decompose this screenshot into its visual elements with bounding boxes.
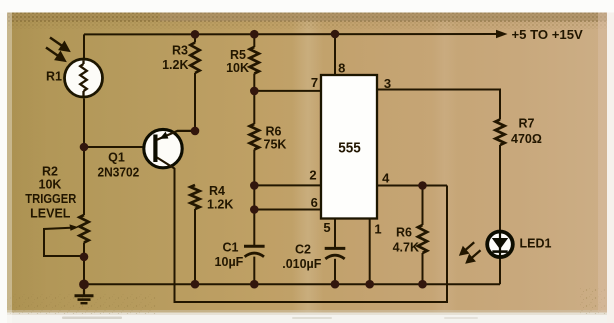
supply arrowhead +5 TO +15V — [496, 30, 508, 38]
IC U1 555 body — [321, 75, 377, 219]
junction node emitter / R3-R4 — [191, 127, 200, 136]
svg-text:470Ω: 470Ω — [511, 132, 542, 146]
capacitor C2 plates — [325, 248, 346, 259]
LED1 emitted light arrow 2 — [471, 250, 480, 258]
junction node pin 6 — [250, 205, 259, 214]
svg-text:+5 TO +15V: +5 TO +15V — [512, 27, 584, 42]
svg-text:LED1: LED1 — [520, 237, 552, 251]
junction node R6b / ground rail — [418, 280, 427, 289]
svg-text:R6: R6 — [266, 125, 282, 139]
wire pin 6 — [254, 209, 321, 211]
wire top rail +V — [84, 33, 498, 35]
svg-text:5: 5 — [323, 220, 330, 235]
light arrow 2 onto R1 — [46, 48, 59, 57]
svg-text:Q1: Q1 — [108, 151, 125, 165]
transistor Q1 body — [144, 129, 182, 167]
bottom-left speckle patch — [7, 294, 157, 314]
svg-text:.010µF: .010µF — [282, 257, 322, 271]
wire R6a bottom to pin2/pin6 node down to C1 — [253, 150, 255, 246]
bottom edge fade — [7, 310, 607, 315]
resistor R3 1.2K — [190, 43, 199, 74]
svg-text:10K: 10K — [226, 61, 249, 75]
transistor Q1 base bar — [153, 135, 157, 163]
svg-text:3: 3 — [384, 76, 391, 91]
LED1 emitted light arrow 1 — [461, 242, 481, 262]
junction node C2 / ground rail — [331, 280, 340, 289]
bottom-right speckle patch — [580, 288, 608, 314]
svg-text:R5: R5 — [230, 48, 246, 62]
svg-text:C2: C2 — [295, 243, 311, 257]
resistor R6 4.7K — [418, 225, 427, 253]
svg-text:4: 4 — [382, 170, 390, 185]
svg-text:R1: R1 — [46, 70, 62, 84]
wire Q1 collector loop to pin 4 — [175, 168, 448, 302]
wire C1 bottom to ground rail — [253, 257, 255, 285]
svg-text:555: 555 — [338, 139, 361, 156]
resistor R7 470 ohm — [495, 120, 504, 146]
wire pin 3 to R7 — [377, 90, 500, 120]
potentiometer R2 wiper arrowhead — [70, 224, 79, 230]
svg-text:R7: R7 — [519, 117, 535, 131]
light arrow 1 onto R1 — [46, 38, 69, 61]
LED1 body — [487, 232, 513, 258]
svg-text:2N3702: 2N3702 — [98, 166, 140, 180]
wire LED cathode to ground rail — [499, 259, 501, 285]
wire pin 8 — [334, 34, 336, 75]
wire pin 1 to ground rail — [369, 219, 371, 285]
junction node pot wiper return — [80, 252, 89, 261]
potentiometer R2 zigzag — [79, 215, 88, 243]
junction node R4 / ground rail — [191, 280, 200, 289]
svg-text:LEVEL: LEVEL — [30, 206, 71, 220]
transistor Q1 collector lead — [157, 158, 175, 169]
wire R5 branch — [253, 34, 255, 47]
svg-text:2: 2 — [309, 168, 316, 183]
svg-text:10µF: 10µF — [215, 255, 244, 269]
wire pin 2 — [254, 184, 321, 186]
svg-text:6: 6 — [311, 195, 318, 210]
junction node pin 7 / R5-R6 — [250, 87, 259, 96]
wire R1 bottom to base junction to pot — [83, 99, 85, 216]
svg-text:1: 1 — [374, 222, 381, 237]
svg-text:R4: R4 — [209, 184, 225, 198]
photoresistor R1 body — [65, 59, 103, 97]
svg-text:C1: C1 — [223, 241, 239, 255]
capacitor C1 plates — [244, 246, 265, 256]
junction node R1 / Q1 base — [80, 143, 89, 152]
resistor R4 1.2K — [190, 185, 199, 209]
svg-text:TRIGGER: TRIGGER — [25, 192, 76, 206]
wire R1 top drop — [83, 34, 85, 58]
wire pin 4 line — [377, 185, 447, 187]
junction node top rail / R5 — [250, 30, 259, 39]
junction node pin 4 / R6b — [418, 181, 427, 190]
LED1 triangle — [492, 238, 508, 249]
light vertical scan streak — [292, 13, 324, 313]
wire R3 branch (top rail through R3 to emitter node, through R4 to ground rail) — [194, 34, 196, 42]
photoresistor R1 internal zigzag — [80, 61, 87, 97]
junction node pin 1 / ground rail — [365, 280, 374, 289]
wire base of Q1 — [84, 146, 154, 148]
junction node C1 / ground rail — [250, 280, 259, 289]
junction node pin 2 — [250, 181, 259, 190]
transistor Q1 emitter lead (to node at R3/R4) — [157, 131, 195, 140]
junction node ground rail left end — [79, 280, 89, 290]
junction node top rail / R3 — [191, 30, 200, 39]
svg-text:4.7K: 4.7K — [393, 241, 419, 255]
wire pot bottom to ground — [83, 243, 85, 285]
svg-text:10K: 10K — [39, 178, 62, 192]
svg-text:R2: R2 — [42, 165, 58, 179]
transistor Q1 emitter arrowhead (PNP) — [160, 132, 169, 139]
svg-text:R6: R6 — [396, 226, 412, 240]
top dithered edge band — [7, 13, 607, 22]
resistor R6 75K — [250, 124, 259, 150]
top white margin — [0, 0, 614, 13]
svg-text:75K: 75K — [264, 138, 287, 152]
svg-text:1.2K: 1.2K — [162, 58, 188, 72]
junction node top rail / pin 8 — [331, 30, 340, 39]
wire pin 5 to C2 — [334, 219, 336, 248]
LED1 anode/cathode vertical lead — [499, 232, 501, 257]
wire R7 to LED anode — [499, 145, 501, 230]
resistor R5 10K — [250, 47, 259, 74]
wire ground rail — [84, 283, 500, 285]
ground symbol — [75, 284, 94, 303]
wire R6b branch pin4 to ground rail — [422, 186, 424, 226]
wire pot wiper loop — [44, 228, 84, 256]
faint bottom scan smudges — [62, 317, 122, 320]
left white margin — [0, 0, 7, 323]
svg-text:1.2K: 1.2K — [207, 198, 233, 212]
svg-text:R3: R3 — [172, 44, 188, 58]
right pink edge strip — [598, 13, 608, 313]
wire pin 7 — [254, 90, 321, 92]
wire C2 bottom to ground rail — [334, 259, 336, 284]
svg-text:7: 7 — [311, 75, 318, 90]
svg-text:8: 8 — [338, 60, 345, 75]
LED1 cathode bar — [492, 250, 507, 253]
darker left column shade — [7, 13, 47, 313]
